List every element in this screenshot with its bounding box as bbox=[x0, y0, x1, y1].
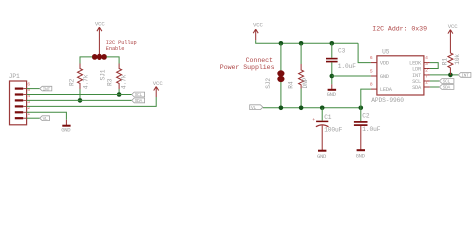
capacitor C3 1.0uF bbox=[326, 43, 356, 84]
wire VCC rail top bbox=[256, 40, 358, 43]
wire rail up to LEDA bbox=[361, 89, 371, 108]
svg-text:8: 8 bbox=[370, 82, 373, 88]
capacitor C2 1.0uF bbox=[354, 108, 381, 150]
connector JP1 bbox=[9, 73, 31, 125]
net flag INT (left) bbox=[40, 86, 52, 92]
supply VCC (right top-left) bbox=[253, 21, 264, 40]
svg-text:VL: VL bbox=[43, 116, 48, 122]
svg-text:6: 6 bbox=[27, 81, 30, 87]
resistor R1 10k bbox=[442, 51, 461, 75]
svg-text:SDA: SDA bbox=[443, 85, 451, 91]
net flag SDA (right) bbox=[439, 85, 454, 91]
pad pin2 bbox=[15, 111, 23, 113]
wire U5 GND pin to C3 bbox=[332, 75, 371, 77]
svg-text:SDA: SDA bbox=[412, 85, 422, 91]
svg-text:1.0uF: 1.0uF bbox=[362, 126, 380, 133]
wire SCL to flag bbox=[430, 80, 440, 82]
pad pin4 bbox=[15, 99, 23, 101]
pin INT (2) bbox=[424, 74, 430, 76]
pin GND (5) bbox=[371, 75, 377, 77]
wire R2 bottom to SDA net bbox=[79, 89, 81, 100]
junction rail/SJ2 bottom bbox=[279, 106, 284, 111]
svg-text:4: 4 bbox=[425, 55, 428, 61]
svg-text:SCL: SCL bbox=[443, 79, 451, 85]
capacitor C1 100uF polarized bbox=[312, 108, 342, 150]
svg-text:VCC: VCC bbox=[253, 21, 264, 28]
wire pin2 to GND bbox=[27, 112, 67, 120]
svg-text:VCC: VCC bbox=[448, 23, 459, 30]
net flag VL (right) bbox=[250, 105, 263, 111]
solder jumper SJ2 bbox=[265, 43, 284, 108]
svg-text:R4: R4 bbox=[288, 81, 295, 89]
resistor R4 DNP bbox=[288, 43, 309, 108]
svg-text:Enable: Enable bbox=[106, 46, 124, 52]
junction R3/SCL bbox=[117, 92, 122, 97]
svg-text:10k: 10k bbox=[454, 54, 461, 65]
wire R3 bottom to SCL net bbox=[118, 89, 120, 95]
wire bottom rail VL bbox=[263, 107, 361, 109]
wire SJ1 right to R3 top bbox=[107, 57, 120, 64]
pin LEDK (4) bbox=[424, 62, 430, 64]
svg-text:VDD: VDD bbox=[380, 61, 389, 67]
wire pin5 SCL net bbox=[27, 94, 132, 96]
svg-text:R1: R1 bbox=[442, 58, 449, 66]
net flag VL (left) bbox=[40, 116, 50, 122]
svg-text:4.7k: 4.7k bbox=[121, 74, 128, 89]
resistor R2 4.7k bbox=[68, 64, 89, 90]
svg-text:SJ1: SJ1 bbox=[100, 69, 107, 80]
ground GND (under C1) bbox=[317, 151, 327, 161]
svg-text:GND: GND bbox=[327, 91, 337, 98]
junction rail/R4 bottom bbox=[299, 106, 304, 111]
svg-text:GND: GND bbox=[61, 127, 71, 134]
svg-text:Power Supplies: Power Supplies bbox=[220, 64, 275, 71]
svg-text:SJ2: SJ2 bbox=[265, 78, 272, 89]
svg-text:5: 5 bbox=[370, 69, 373, 75]
svg-text:6: 6 bbox=[370, 55, 373, 61]
pad pin6 bbox=[15, 87, 23, 89]
svg-text:GND: GND bbox=[317, 153, 327, 160]
net flag INT (right) bbox=[458, 73, 471, 79]
svg-text:1.0uF: 1.0uF bbox=[338, 63, 356, 70]
svg-text:GND: GND bbox=[356, 153, 366, 160]
pin LDR (3) bbox=[424, 68, 430, 70]
junction INT/R1 bbox=[448, 73, 453, 78]
junction C3/GND net bbox=[330, 74, 335, 79]
svg-text:2: 2 bbox=[425, 68, 428, 74]
svg-text:JP1: JP1 bbox=[9, 73, 20, 80]
svg-text:C3: C3 bbox=[338, 48, 346, 55]
svg-text:INT: INT bbox=[461, 73, 469, 79]
svg-text:I2C Addr: 0x39: I2C Addr: 0x39 bbox=[372, 25, 427, 32]
junction rail/C3 bbox=[330, 41, 335, 46]
pin SDA (1) bbox=[424, 86, 430, 88]
svg-text:SDA: SDA bbox=[135, 98, 143, 104]
label I2C Pullup Enable bbox=[106, 40, 137, 52]
svg-text:LDR: LDR bbox=[412, 66, 422, 72]
svg-text:3: 3 bbox=[425, 61, 428, 67]
pin LEDA (8) bbox=[371, 88, 377, 90]
svg-text:SCL: SCL bbox=[135, 92, 143, 98]
svg-text:4.7k: 4.7k bbox=[83, 74, 90, 89]
svg-text:C1: C1 bbox=[324, 114, 332, 121]
pin SCL (7) bbox=[424, 80, 430, 82]
supply VCC (left top) bbox=[95, 21, 106, 56]
svg-text:1: 1 bbox=[425, 80, 428, 86]
IC U5 APDS-9960 bbox=[370, 48, 430, 104]
supply VCC (left block right) bbox=[153, 80, 164, 97]
ground GND (under C2) bbox=[356, 150, 366, 159]
pin VDD (6) bbox=[371, 62, 377, 64]
wire SJ1 left to R2 top bbox=[80, 57, 92, 64]
svg-text:VCC: VCC bbox=[95, 21, 106, 28]
junction rail/C2/LEDA bbox=[359, 106, 364, 111]
pad pin1 bbox=[15, 117, 23, 119]
svg-text:DNP: DNP bbox=[302, 77, 309, 88]
svg-text:R3: R3 bbox=[107, 78, 114, 86]
wire pin3 to VCC bbox=[27, 97, 157, 106]
wire pin6 to INT flag bbox=[27, 88, 40, 90]
wire SDA to flag bbox=[430, 86, 440, 88]
resistor R3 4.7k bbox=[107, 64, 128, 90]
junction rail/C1 bbox=[320, 106, 325, 111]
svg-text:VL: VL bbox=[251, 105, 256, 111]
svg-text:100uF: 100uF bbox=[324, 126, 342, 133]
wire INT net bbox=[430, 74, 458, 76]
pad pin5 bbox=[15, 93, 23, 95]
svg-text:LEDA: LEDA bbox=[380, 87, 393, 93]
svg-text:R2: R2 bbox=[68, 78, 75, 86]
ground GND (under C3) bbox=[327, 84, 337, 98]
junction rail/SJ2 bbox=[279, 41, 284, 46]
wire rail to VDD bbox=[358, 43, 371, 62]
svg-text:U5: U5 bbox=[382, 48, 390, 55]
net flag SDA (left) bbox=[132, 98, 145, 104]
net flag SCL (left) bbox=[132, 92, 145, 98]
svg-text:7: 7 bbox=[425, 74, 428, 80]
supply VCC (right, above R1) bbox=[448, 23, 459, 50]
wire pin1 to VL flag bbox=[27, 117, 40, 119]
net flag SCL (right) bbox=[439, 79, 454, 85]
label Connect Power Supplies bbox=[220, 57, 275, 71]
svg-text:APDS-9960: APDS-9960 bbox=[371, 97, 404, 104]
junction rail/R4 bbox=[299, 41, 304, 46]
svg-text:C2: C2 bbox=[362, 113, 370, 120]
pad pin3 bbox=[15, 105, 23, 107]
wire pin4 SDA net bbox=[27, 99, 132, 101]
solder jumper SJ1 bbox=[92, 54, 106, 80]
svg-text:VCC: VCC bbox=[153, 80, 164, 87]
svg-text:GND: GND bbox=[380, 74, 389, 80]
junction R2/SDA bbox=[78, 98, 83, 103]
svg-text:+: + bbox=[312, 118, 315, 123]
ground GND (left) bbox=[61, 120, 71, 134]
svg-text:INT: INT bbox=[43, 86, 51, 92]
wire LEDK-LDR loop bbox=[430, 63, 438, 69]
svg-text:INT: INT bbox=[412, 73, 422, 79]
